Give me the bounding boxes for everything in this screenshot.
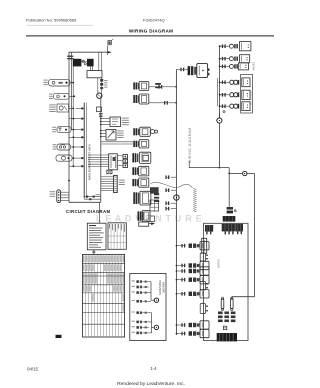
branch vent fan xyxy=(176,279,181,281)
small box on mid bus xyxy=(97,107,102,112)
wire drop to legend xyxy=(98,202,100,223)
base assembly box xyxy=(204,223,249,340)
branch wire drain valve V2 xyxy=(220,58,229,60)
connector CN1 pins right xyxy=(155,83,161,85)
terminal box CN10 xyxy=(139,222,149,226)
grounding diagram box xyxy=(130,274,166,341)
star symbol right column xyxy=(223,110,225,112)
fill valve V1 connector body xyxy=(240,42,251,51)
bus stub row 208 xyxy=(171,208,177,210)
thermostat label xyxy=(52,127,56,128)
svg-text:1-4: 1-4 xyxy=(150,366,157,371)
wire across top xyxy=(189,167,229,169)
motor winding legs xyxy=(206,232,207,235)
ground marker G2 xyxy=(217,118,222,123)
harness connector CN4 xyxy=(133,140,149,148)
wires to module row4 xyxy=(101,141,133,143)
ground marker on bus G1 xyxy=(174,195,179,200)
header small rule left xyxy=(26,24,93,26)
wire G3 to right drop xyxy=(247,173,255,175)
legend notes box xyxy=(87,223,106,250)
wire TF1 to bus xyxy=(70,82,73,84)
motor winding center xyxy=(222,224,235,232)
door module inline tick xyxy=(180,68,181,72)
wire right-top bus xyxy=(219,46,221,118)
svg-text:CIRCUIT DIAGRAM: CIRCUIT DIAGRAM xyxy=(66,209,110,214)
extra edge connector 2 xyxy=(200,282,205,291)
svg-text:MOTOR ASM: MOTOR ASM xyxy=(249,91,252,105)
right-top lower group box xyxy=(241,74,253,113)
wires to tall strip xyxy=(101,176,114,178)
tall connector strip TS1 xyxy=(114,175,118,192)
relay box K1 xyxy=(87,71,102,78)
bus dot row 180 xyxy=(68,180,70,182)
branch wire dispenser motor M2 xyxy=(220,81,229,83)
connector CN8 pins right xyxy=(154,193,159,195)
svg-text:WIRING DIAGRAM: WIRING DIAGRAM xyxy=(129,28,174,33)
svg-text:Publication No. 5995680569: Publication No. 5995680569 xyxy=(26,18,77,23)
wire label stub xyxy=(188,162,190,168)
wires block to pin squares xyxy=(117,155,123,157)
wire drops from L1 to K1 xyxy=(98,52,100,70)
wires bus to main board xyxy=(76,107,85,109)
float switch label xyxy=(53,144,57,145)
door switch module DM1 xyxy=(197,63,208,77)
grounding item 3 xyxy=(132,291,135,292)
harness connector CN6 xyxy=(132,166,148,176)
ground symbol GD1 xyxy=(154,298,158,302)
pressure switch box PS1 xyxy=(110,117,121,127)
motor feed connector stack xyxy=(227,207,233,210)
grounding item 7 xyxy=(132,326,135,327)
inner box CN5 xyxy=(143,155,148,160)
extra edge connector 3 xyxy=(200,304,205,314)
extra edge connector 1 xyxy=(200,253,205,261)
vent valve V3 connector body xyxy=(238,63,248,70)
turbidity sensor labels xyxy=(49,104,56,105)
svg-text:Rendered by LeadVenture, Inc.: Rendered by LeadVenture, Inc. xyxy=(117,381,185,387)
wire right drop to fuse xyxy=(232,296,255,298)
wire stub row 118 xyxy=(69,118,76,120)
wire CN2 to right bus xyxy=(149,102,164,104)
door latch switch S2 block right xyxy=(87,59,94,67)
vent valve V3 coil symbol xyxy=(229,64,233,68)
wire DS1 to bus xyxy=(72,157,76,159)
bus stub row 203 xyxy=(171,202,177,204)
harness connector CN7 xyxy=(132,178,148,187)
wire door module to bus corner xyxy=(176,68,180,70)
grounding item 2 xyxy=(132,286,135,287)
fill valve V1 coil symbol xyxy=(229,44,233,48)
grounding item 8 xyxy=(132,332,135,333)
wire top horizontal L1 xyxy=(69,51,112,53)
pressure switch label xyxy=(122,118,129,119)
pin header labels xyxy=(95,194,100,195)
wire stub row 137 xyxy=(69,136,76,138)
circuit table columns xyxy=(85,254,121,337)
wire bus to ground G2 xyxy=(218,113,220,118)
door latch switch contacts xyxy=(82,60,84,62)
branch wash pump xyxy=(176,265,181,267)
power cord plug P xyxy=(106,46,108,55)
branch water valve xyxy=(176,293,181,295)
heater limit label xyxy=(49,94,53,95)
header rule xyxy=(26,35,274,37)
page edge marker xyxy=(56,335,62,338)
dispenser DS1 xyxy=(56,155,72,161)
twisted pair bundle xyxy=(193,189,196,190)
tall strip label xyxy=(119,180,125,181)
wires mid bus to diode box xyxy=(101,130,106,132)
branch wire wash motor M3 xyxy=(220,94,229,96)
heater connector rows xyxy=(218,312,223,315)
diode box label xyxy=(117,130,123,131)
heater terminal block xyxy=(217,333,237,341)
dispenser motor M2 coil symbol xyxy=(230,80,234,84)
circuit table frame xyxy=(82,254,124,337)
wire G2 down to junction xyxy=(218,123,220,167)
wire to G3 xyxy=(229,173,242,175)
motor winding left xyxy=(205,225,213,232)
svg-text:VALVES: VALVES xyxy=(253,62,256,71)
svg-text:DIAGRAM: DIAGRAM xyxy=(162,282,165,293)
wash motor M3 connector body xyxy=(242,90,250,99)
wire FS1 to bus xyxy=(71,146,76,148)
svg-text:MOTOR: MOTOR xyxy=(218,259,221,268)
harness connector CN9 xyxy=(138,210,151,221)
wire TB1 to bus xyxy=(69,107,74,109)
wire right drop vertical xyxy=(254,174,256,297)
harness connector CN3 xyxy=(133,127,150,136)
small box symbol heater xyxy=(223,326,226,329)
turbidity sensor TB1 box xyxy=(57,104,69,112)
board block B2 xyxy=(109,154,118,170)
svg-text:WIRING DIAGRAM: WIRING DIAGRAM xyxy=(188,127,192,163)
user interface label xyxy=(50,191,56,192)
harness connector CN1 xyxy=(133,81,149,90)
float switch FS1 xyxy=(57,144,71,150)
harness connector CN2 xyxy=(133,94,149,104)
wire motor feed drop xyxy=(228,168,230,207)
drain motor M4 coil symbol xyxy=(230,104,234,108)
grounding item 5 xyxy=(132,312,135,313)
diode box D1 xyxy=(106,130,116,141)
wires UI1 to bus xyxy=(61,191,69,193)
door latch switch S1 block left xyxy=(73,59,82,67)
fuse FH2 xyxy=(231,299,234,309)
main board connector strip J1 xyxy=(83,103,85,199)
dispenser motor M2 connector body xyxy=(242,78,250,87)
wire bus left B xyxy=(71,52,73,129)
wire K1 to pump motor xyxy=(97,78,99,93)
branch heater relay xyxy=(176,245,181,247)
wire right main bus vertical xyxy=(175,69,177,335)
thermostat TH1 xyxy=(57,127,71,133)
wire latch to relay box xyxy=(90,66,92,70)
svg-text:FGID2474Q: FGID2474Q xyxy=(143,18,165,23)
grounding item 6 xyxy=(132,321,135,322)
heater limit switch LS1 xyxy=(54,93,70,99)
circuit table header rotated text xyxy=(84,256,124,263)
wire left bus bottom corner xyxy=(69,201,101,203)
motor winding right xyxy=(235,224,243,232)
circuit table rows xyxy=(82,263,124,324)
thermal fuse TF1 xyxy=(49,79,71,86)
user interface connector UI1 xyxy=(57,190,61,203)
left grid box row 203 xyxy=(150,200,159,211)
wire grounding rows join xyxy=(150,282,152,293)
branch wire drain motor M4 xyxy=(220,105,229,107)
wire CN1 to right bus xyxy=(149,86,159,88)
connector ticks top-left xyxy=(67,56,71,57)
legend key table box xyxy=(108,223,126,250)
small box row 218 xyxy=(150,216,154,222)
wire TH1 to bus xyxy=(71,129,76,131)
pin squares PQ xyxy=(123,155,128,159)
harness connector CN8 xyxy=(133,191,151,205)
ground symbol GD2 xyxy=(154,325,158,329)
small component X1 xyxy=(107,170,112,174)
pump motor M1 xyxy=(97,93,102,98)
wire stub row 166 xyxy=(69,165,76,167)
main motor connector block xyxy=(223,216,236,222)
wire LS1 to bus xyxy=(69,95,75,97)
left comp pair row 190 xyxy=(150,187,159,193)
wire right-top bus neutral xyxy=(216,78,218,106)
wire bus left C xyxy=(72,59,74,166)
branch wire vent valve V3 xyxy=(220,65,229,67)
grounding item 1 xyxy=(132,280,135,281)
wash motor M3 coil symbol xyxy=(230,93,234,97)
fuse FH1 xyxy=(221,299,224,309)
drain valve V2 coil symbol xyxy=(229,57,233,61)
branch wire fill valve V1 xyxy=(220,45,229,47)
mid bus ticks xyxy=(99,113,103,114)
wire mid bus xyxy=(100,98,102,202)
harness connector CN5 xyxy=(132,152,150,163)
capacitor on box edge xyxy=(202,238,207,253)
svg-text:04/15: 04/15 xyxy=(27,367,39,372)
branch junction 7 xyxy=(176,333,181,335)
bus stub row 177 xyxy=(171,176,177,178)
drain motor M4 connector body xyxy=(242,102,250,111)
wire legend to table xyxy=(93,250,95,255)
thermal fuse label xyxy=(43,80,47,81)
branch drain pump xyxy=(176,270,181,272)
drain valve V2 connector body xyxy=(240,55,250,63)
fuse chain F1 xyxy=(100,79,103,82)
ground marker G3 xyxy=(243,171,247,175)
grounding item 4 xyxy=(132,300,135,301)
branch junction 6 xyxy=(176,324,181,326)
arrow CN10 xyxy=(149,223,155,225)
fuse chain value label xyxy=(104,80,107,81)
connector CN3 round plug xyxy=(151,130,155,134)
ribbon wires to board block xyxy=(88,154,109,156)
wire bus left A xyxy=(68,52,70,202)
wires mid bus to pressure box xyxy=(101,118,110,120)
circuit table cell text marks xyxy=(84,264,124,311)
pin header wires bottom xyxy=(84,196,101,198)
bus stub row 190 xyxy=(171,189,177,191)
wire harness squiggle xyxy=(151,182,193,188)
